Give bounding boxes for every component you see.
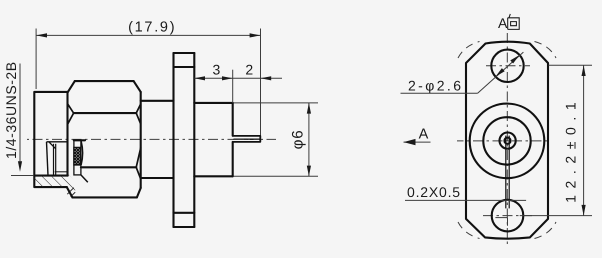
hex facet end fan upper-right — [136, 104, 141, 124]
dimension 12.2 arrow bottom — [582, 205, 586, 216]
phi6 arrow bottom — [307, 166, 311, 177]
dimension 3 arrow right — [222, 76, 233, 80]
flange bottom chamfer line — [174, 212, 195, 214]
pin centerline dashes — [234, 138, 259, 140]
gasket knurl band — [74, 140, 81, 175]
barrel top edge + phi6 extension — [194, 102, 232, 104]
label 0.2X0.5 leader underline — [405, 199, 526, 201]
outer barrel circle — [470, 104, 545, 179]
slot right line — [508, 136, 510, 209]
barrel face extension line up — [232, 70, 234, 103]
corner phantom arc bottom-right — [535, 222, 557, 239]
svg-text:3: 3 — [213, 62, 221, 78]
hex facet end fan upper-left — [68, 104, 74, 124]
chamfer hatch line a — [67, 188, 74, 195]
dimension (17.9) extension line right / pin tip edge upper — [260, 29, 262, 136]
bottom hole inner mark vertical — [507, 218, 509, 226]
corner phantom arc top-left — [458, 42, 480, 59]
top hole centerline — [486, 65, 530, 67]
dimension 12.2 extension bottom — [520, 215, 592, 217]
nut bore top edge — [47, 141, 68, 143]
hex top-right chamfer — [134, 81, 141, 92]
hex upper facet line — [74, 112, 137, 114]
centerline left view — [27, 138, 276, 140]
thread pointer arrow — [18, 161, 22, 172]
svg-text:(17.9): (17.9) — [128, 20, 176, 36]
barrel right face upper — [232, 103, 234, 136]
middle circle — [483, 117, 530, 164]
vertical centerline right view — [506, 33, 508, 244]
svg-text:A: A — [419, 126, 429, 142]
hex top-left chamfer — [68, 81, 75, 92]
hex bottom-right chamfer — [137, 188, 141, 197]
gasket knurl section fill — [74, 147, 81, 165]
flange bottom edge — [174, 226, 195, 228]
leader arrowhead upper-right — [510, 55, 519, 64]
pin slot line — [234, 138, 260, 140]
center pin outline — [233, 136, 261, 142]
svg-text:2: 2 — [245, 62, 253, 78]
hex body top edge — [75, 80, 134, 82]
view direction arrowhead — [404, 139, 416, 145]
dimension (17.9) extension line left — [35, 29, 37, 90]
barrel bottom edge + phi6 extension — [194, 175, 232, 177]
flange top edge — [174, 52, 195, 54]
svg-text:12.2±0.1: 12.2±0.1 — [563, 96, 579, 203]
bottom hole centerline — [483, 215, 533, 217]
bore chamfer diagonal — [49, 142, 56, 149]
phi6 arrow top — [307, 103, 311, 114]
dimension 3 / 2 line — [194, 77, 282, 79]
coupling nut outline — [34, 92, 68, 187]
nut section hatch — [34, 173, 75, 197]
thread minor diameter line — [55, 171, 68, 173]
svg-text:2-φ2.6: 2-φ2.6 — [408, 77, 463, 93]
nut thread bore floor — [34, 175, 67, 177]
dimension 2 arrow right — [261, 76, 272, 80]
mid cylinder top edge — [141, 100, 174, 102]
label 2-phi2.6 underline — [401, 92, 478, 94]
hex facet end fan lower-right — [136, 148, 141, 180]
dimension 12.2 line — [583, 65, 585, 215]
flange plate right edge — [193, 53, 195, 227]
svg-text:1/4-36UNS-2B: 1/4-36UNS-2B — [3, 61, 19, 159]
dimension (17.9) line — [36, 34, 260, 36]
horizontal centerline center circles — [457, 140, 551, 142]
bottom hole inner mark horizontal — [495, 217, 507, 219]
dimension 12.2 arrow top — [582, 65, 586, 76]
phi6 dimension line — [308, 103, 310, 176]
dimension 3 arrow left — [194, 76, 205, 80]
barrel right face lower — [232, 142, 234, 176]
corner phantom arc top-right — [535, 42, 557, 59]
mid cylinder bottom edge — [141, 177, 174, 179]
corner phantom arc bottom-left — [458, 222, 480, 239]
slot left line — [505, 136, 507, 209]
dimension 12.2 extension top — [549, 64, 593, 66]
small circle — [500, 133, 516, 149]
flange plate outline — [466, 42, 548, 239]
flange top chamfer line — [174, 66, 195, 68]
nut/hex boundary line — [66, 92, 68, 176]
chamfer hatch line b — [71, 192, 76, 197]
bottom mounting hole — [492, 200, 524, 232]
tiny pin circle — [504, 138, 510, 144]
hex bottom edge — [72, 196, 136, 198]
thread pointer line — [19, 64, 21, 163]
svg-text:0.2X0.5: 0.2X0.5 — [407, 184, 461, 200]
thread surface extension line — [11, 175, 33, 177]
hex lower facet line — [81, 166, 136, 168]
gasket top edge line — [74, 139, 85, 141]
hex bottom-left chamfer (sectioned) — [67, 187, 73, 197]
bore step cone — [47, 142, 49, 176]
top mounting hole — [491, 50, 523, 82]
svg-text:φ6: φ6 — [290, 129, 307, 149]
A view CJK glyph xiang (drawn) — [508, 14, 520, 30]
hex right edge — [140, 92, 142, 188]
dimension (17.9) arrow right — [250, 33, 261, 37]
bore inner face double line — [53, 144, 55, 176]
dimension (17.9) arrow left — [36, 33, 47, 37]
view direction arrow line — [404, 141, 431, 143]
label 2-phi2.6 leader diagonal — [478, 52, 524, 93]
gasket right bulge arc — [81, 141, 83, 165]
flange plate left edge — [172, 53, 174, 227]
chamfer fan diagonal lower-left — [81, 175, 88, 182]
leader arrowhead lower-left — [496, 68, 505, 77]
svg-text:A: A — [498, 15, 508, 31]
